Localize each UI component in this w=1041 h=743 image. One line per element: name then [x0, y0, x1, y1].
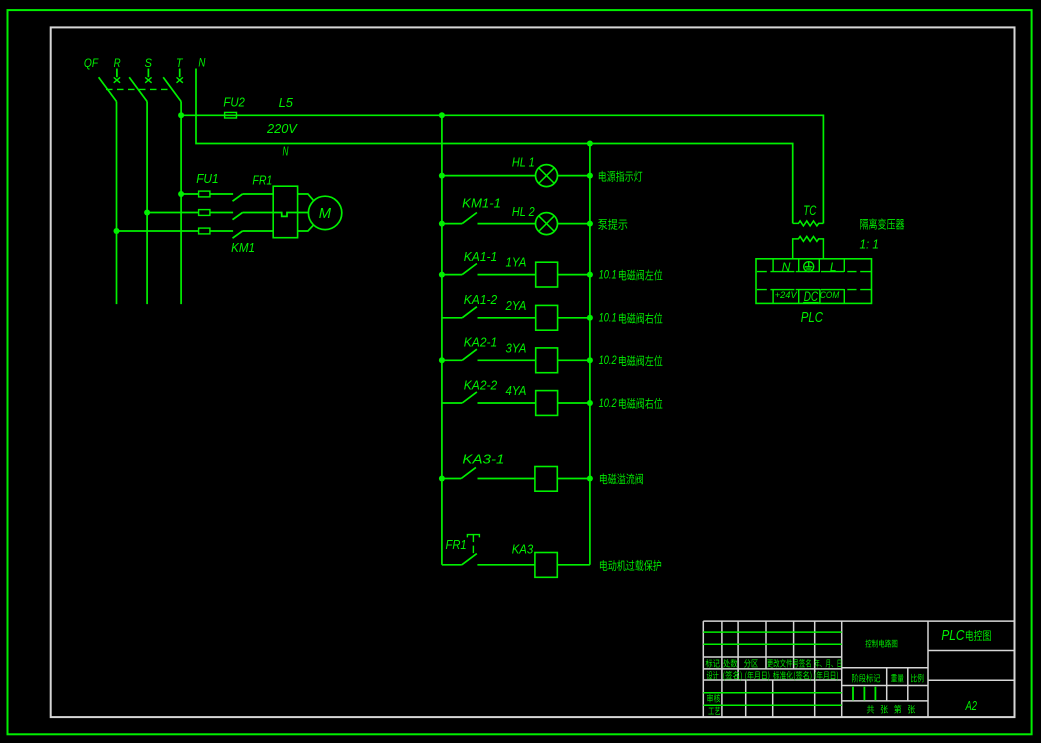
svg-text:KA1-2: KA1-2	[464, 293, 497, 307]
svg-text:N: N	[782, 260, 791, 274]
fuse FU1 element 1	[199, 191, 210, 197]
breaker QF pole 1 blade	[99, 77, 117, 101]
wire KA1-1 row right	[558, 274, 590, 276]
DC underline	[803, 302, 819, 304]
motor M circle	[308, 196, 341, 229]
wire KA2-1 row mid	[478, 359, 536, 361]
contact KA2-1	[462, 349, 477, 360]
revision row green line 2	[703, 643, 841, 645]
signature green line 2	[703, 704, 841, 706]
node HL1 right	[587, 173, 593, 179]
wire HL1 row left	[442, 175, 536, 177]
label weight	[891, 674, 904, 682]
title rows horizontals	[703, 657, 841, 680]
label stage mark	[852, 674, 880, 683]
middle section horizontals	[842, 668, 928, 701]
wire motor row 2 left	[147, 212, 199, 214]
title block outline	[703, 621, 1014, 717]
wire KA2-1 row right	[558, 359, 590, 361]
wire motor row 1 to contact	[210, 193, 233, 195]
thermal relay FR1 box	[273, 186, 297, 238]
wire motor row 2 through FR1 heater	[243, 213, 309, 217]
svg-text:KA1-1: KA1-1	[464, 250, 497, 264]
x mark	[145, 77, 151, 82]
svg-text:KA3: KA3	[512, 543, 534, 557]
svg-text:N: N	[198, 56, 205, 70]
signature green line 1	[703, 692, 841, 694]
wire KA1-1 row mid	[478, 274, 536, 276]
wire KA2-2 row right	[558, 402, 590, 404]
contact KM1-1	[462, 213, 477, 224]
svg-text:FR1: FR1	[446, 538, 467, 552]
wire motor row 1 left	[181, 193, 199, 195]
svg-text:R: R	[114, 56, 121, 70]
svg-text:+24V: +24V	[775, 290, 799, 301]
signature band verticals	[722, 680, 815, 717]
wire FR1 to motor row1	[298, 194, 314, 201]
svg-text:N: N	[283, 145, 290, 159]
svg-text:TC: TC	[803, 203, 816, 218]
svg-text:3YA: 3YA	[506, 341, 527, 355]
label scale	[911, 674, 923, 683]
wire KA3-1 row mid	[478, 478, 535, 480]
supply wire stub	[179, 69, 181, 78]
wire phase R vertical	[116, 102, 118, 305]
svg-text:FU2: FU2	[223, 95, 245, 109]
contact KA1-1	[462, 264, 477, 275]
svg-text:KA3-1: KA3-1	[462, 452, 504, 466]
contact KA1-2	[462, 307, 477, 318]
svg-text:220V: 220V	[266, 122, 299, 136]
wire KA3-1 row right	[557, 478, 590, 480]
breaker QF pole 2 blade	[129, 77, 147, 101]
revision row green line 1	[703, 631, 841, 633]
node T-L5 junction	[178, 112, 184, 118]
node HL2 right	[587, 221, 593, 227]
coil 4YA	[536, 391, 558, 416]
node KA1-1 left	[439, 272, 445, 278]
wire phase T vertical	[180, 102, 182, 305]
coil 1YA	[536, 262, 558, 287]
coil KA3	[535, 553, 557, 578]
node right bus on N	[587, 141, 593, 147]
wire HL2 row mid	[478, 223, 536, 225]
revision grid verticals	[722, 621, 815, 680]
label power indicator lamp	[599, 171, 643, 182]
node KA2-2 right	[587, 400, 593, 406]
wire KA2-2 row left	[442, 402, 462, 404]
PLC terminal block outline	[756, 259, 872, 304]
node HL2 left	[439, 221, 445, 227]
contactor KM1 main contact 3	[233, 231, 243, 238]
node KA2-1 right	[587, 357, 593, 363]
svg-text:1: 1: 1: 1	[860, 237, 879, 251]
svg-text:2YA: 2YA	[505, 299, 527, 313]
PLC top terminal dividers	[772, 259, 774, 272]
wire motor row 2 to contact	[210, 212, 233, 214]
svg-text:FR1: FR1	[252, 174, 272, 188]
svg-text:L: L	[830, 260, 837, 274]
PLC earth terminal symbol	[804, 262, 814, 272]
coil 2YA	[536, 305, 558, 330]
fuse FU2	[225, 112, 237, 118]
FR1 thermal symbol bracket	[467, 535, 479, 538]
title block vertical separator mid	[841, 621, 843, 717]
svg-text:PLC: PLC	[941, 628, 965, 644]
svg-text:L5: L5	[279, 96, 293, 110]
wire KA1-2 row left	[442, 317, 462, 319]
svg-text:KA2-1: KA2-1	[464, 336, 497, 350]
svg-text:PLC: PLC	[801, 309, 823, 326]
label control circuit diagram	[865, 639, 897, 647]
lamp HL2	[536, 213, 558, 235]
breaker linkage dashed line	[106, 88, 173, 90]
wire FR1 to motor row3	[298, 225, 314, 231]
wire KA3 row mid	[477, 564, 535, 566]
svg-text:S: S	[145, 56, 153, 70]
wire motor row 3 right	[243, 230, 274, 232]
supply wire stub	[116, 69, 118, 78]
svg-text:10.1: 10.1	[599, 311, 617, 325]
svg-text:10.2: 10.2	[599, 396, 617, 410]
label motor overload protection	[600, 560, 661, 571]
stage mark ticks	[853, 687, 875, 700]
node HL1 left	[439, 173, 445, 179]
wire right control bus	[589, 144, 591, 565]
middle section verticals	[887, 668, 908, 701]
wire KA2-1 row left	[442, 359, 462, 361]
contactor KM1 main contact 1	[233, 194, 243, 201]
wire left control bus	[441, 115, 443, 565]
contact KA2-2	[462, 392, 477, 403]
svg-text:M: M	[319, 206, 332, 222]
FR1 thermal symbol stem dashed	[472, 535, 474, 554]
label revision header row	[706, 659, 720, 668]
svg-text:1YA: 1YA	[506, 256, 527, 270]
wire HL2 row right	[558, 223, 590, 225]
lamp HL1	[536, 165, 558, 187]
label design signature row	[707, 671, 719, 680]
svg-text:HL 2: HL 2	[512, 205, 535, 219]
svg-text:KA2-2: KA2-2	[464, 378, 497, 392]
node KA2-1 left	[439, 357, 445, 363]
svg-text:A2: A2	[965, 699, 977, 713]
supply wire stub	[147, 69, 149, 78]
PLC top dashed separator	[757, 271, 871, 273]
title block vertical separator right	[927, 621, 929, 717]
wire motor row 1 right	[243, 193, 274, 195]
svg-text:DC: DC	[804, 289, 819, 304]
wire motor row 3 to contact	[210, 230, 233, 232]
svg-text:T: T	[176, 56, 184, 70]
wire motor row 3 left	[117, 230, 199, 232]
breaker QF pole 3 blade	[163, 77, 181, 101]
node row1 tap on T	[178, 191, 184, 197]
wire KA1-2 row mid	[478, 317, 536, 319]
svg-text:10.2: 10.2	[599, 353, 617, 367]
wire FR1 row left	[442, 564, 462, 566]
node row3 tap on R	[114, 228, 120, 234]
fuse FU1 element 3	[199, 228, 210, 234]
node KA3-1 left	[439, 476, 445, 482]
svg-text:KM1-1: KM1-1	[462, 197, 501, 211]
contact FR1 thermal NC blade	[462, 554, 477, 565]
wire KA1-1 row left	[442, 274, 462, 276]
label review	[707, 694, 720, 703]
wire KA1-2 row right	[558, 317, 590, 319]
label solenoid relief valve	[600, 473, 643, 484]
wire KA3 row right	[557, 564, 590, 566]
PLC bottom terminal dividers	[772, 289, 774, 303]
svg-text:COM: COM	[820, 290, 839, 301]
svg-text:KM1: KM1	[231, 241, 255, 255]
coil 3YA	[536, 348, 558, 373]
wire KA3-1 row left	[442, 478, 461, 480]
label process	[708, 707, 720, 715]
fuse FU1 element 2	[199, 210, 210, 216]
contactor KM1 main contact 2	[233, 213, 243, 220]
node KA3-1 right	[587, 476, 593, 482]
label pump indication	[598, 219, 627, 230]
label sheet count	[867, 705, 874, 713]
label PLC title cjk	[966, 630, 991, 641]
wire phase S vertical	[146, 102, 148, 305]
node row2 tap on S	[144, 210, 150, 216]
x mark	[114, 77, 120, 82]
svg-text:FU1: FU1	[196, 172, 218, 186]
svg-text:4YA: 4YA	[506, 384, 527, 398]
wire HL1 row right	[558, 175, 590, 177]
node KA1-2 right	[587, 315, 593, 321]
wire neutral N vertical and horizontal	[196, 69, 793, 224]
wire HL2 row left	[442, 223, 462, 225]
label isolation transformer	[860, 218, 904, 229]
wire L5 220V line	[181, 115, 823, 223]
coil relief valve	[535, 467, 557, 492]
svg-text:10.1: 10.1	[599, 268, 617, 282]
svg-text:HL 1: HL 1	[512, 155, 535, 169]
right section horizontals	[928, 651, 1015, 681]
node left bus on L5	[439, 112, 445, 118]
svg-text:QF: QF	[84, 56, 99, 70]
PLC bottom dashed separator	[757, 289, 871, 291]
transformer TC primary winding	[793, 221, 824, 226]
contact KA3-1	[461, 467, 476, 478]
node KA1-1 right	[587, 272, 593, 278]
transformer TC secondary winding and leads	[793, 236, 824, 259]
wire KA2-2 row mid	[478, 402, 536, 404]
x mark	[177, 77, 183, 82]
